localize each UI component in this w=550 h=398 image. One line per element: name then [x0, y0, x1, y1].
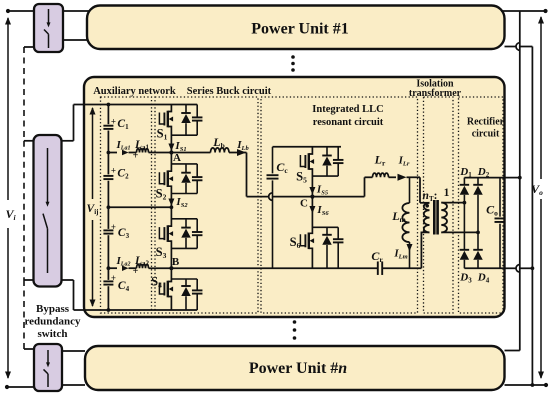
svg-text:switch: switch [38, 328, 68, 340]
current arrow IS6 [309, 204, 329, 217]
transformer T1 primary [421, 203, 429, 268]
wire [7, 386, 34, 388]
node B junction [169, 256, 180, 270]
diode and capacitor of S5 [312, 147, 343, 176]
diode and capacitor of S1 [171, 105, 202, 136]
isolation transformer label [409, 79, 462, 100]
wire [8, 10, 34, 12]
current arrow ILr [398, 155, 410, 181]
diode and capacitor of S4 [171, 279, 202, 310]
power unit #n label [249, 360, 347, 377]
current arrow ILb [236, 139, 249, 156]
transformer T1 secondary [441, 203, 447, 233]
svg-text:Power Unit #n: Power Unit #n [249, 360, 347, 377]
wire [24, 348, 34, 350]
wire [63, 39, 90, 41]
capacitor Cc [267, 147, 289, 268]
plus sign La1 [133, 151, 139, 162]
current arrow ILm [393, 242, 412, 268]
wire capacitor string [107, 103, 111, 125]
current arrow IS5 [309, 184, 328, 197]
svg-text:Bypass: Bypass [36, 303, 70, 315]
wire [107, 207, 109, 229]
vertical ellipsis (top) [291, 55, 295, 72]
svg-text:Integrated LLC: Integrated LLC [312, 104, 383, 115]
dashed series-input link (left) [23, 47, 25, 349]
svg-text:transformer: transformer [409, 88, 462, 99]
wire LLC top rail [273, 146, 342, 148]
power unit #1 box [87, 6, 505, 50]
svg-text:+: + [133, 266, 139, 277]
node A junction [169, 150, 181, 164]
diode D2 [473, 166, 489, 232]
wire with hop [505, 43, 533, 51]
wire [24, 46, 34, 48]
transistor S1 [157, 105, 173, 153]
capacitor C1 [103, 117, 129, 131]
rectifier circuit label [467, 117, 505, 140]
auxiliary network label [93, 86, 176, 97]
Vi measurement arrow [5, 17, 11, 379]
wire [24, 140, 34, 142]
diode D3 [459, 250, 472, 284]
wire [62, 280, 85, 310]
wire [171, 152, 246, 154]
inductor Lb [211, 135, 230, 153]
transformer ratio label [423, 187, 450, 203]
wire with hop [505, 265, 535, 273]
Vij label [87, 203, 99, 216]
transistor S6 [290, 197, 314, 269]
svg-text:+: + [111, 222, 116, 232]
wire [505, 383, 547, 387]
wire [501, 10, 546, 12]
integrated LLC label [312, 104, 383, 128]
capacitor Co [486, 178, 505, 269]
isolation transformer dotted box [424, 97, 454, 313]
svg-text:Auxiliary network: Auxiliary network [93, 86, 176, 97]
inductor Lm [391, 177, 409, 242]
svg-text:redundancy: redundancy [24, 316, 81, 328]
bypass redundancy switch box [34, 135, 62, 287]
auxiliary network dotted box [101, 97, 152, 313]
inductor Lr [373, 153, 389, 178]
transistor S3 [156, 207, 173, 268]
svg-text:Vo: Vo [531, 182, 543, 197]
svg-text:B: B [172, 256, 180, 268]
wire [107, 153, 109, 175]
input redundancy switch K1 (top) [34, 4, 63, 52]
wire node C [247, 193, 365, 201]
Vij measurement arrow [90, 107, 96, 307]
inductor La1 [134, 139, 150, 153]
node output minus terminal (bottom-right) [544, 383, 548, 387]
wire [505, 176, 522, 180]
wire [62, 384, 85, 386]
wire [407, 177, 430, 203]
wire [24, 279, 34, 281]
current arrow ILa1 [116, 139, 131, 155]
current arrow ILa2 [116, 255, 131, 271]
inductor La2 [134, 255, 150, 268]
svg-text:Series Buck circuit: Series Buck circuit [187, 86, 272, 97]
wire bottom input rail [84, 309, 197, 311]
svg-text:Vi: Vi [5, 207, 16, 222]
wire [246, 153, 248, 197]
bypass redundancy switch label [24, 303, 81, 340]
svg-text:1: 1 [444, 187, 450, 199]
capacitor C2 [103, 166, 129, 181]
vertical ellipsis (bottom) [293, 320, 297, 340]
wire [365, 177, 397, 196]
capacitor C4 [103, 273, 129, 293]
diode D1 [459, 166, 472, 203]
Vo measurement arrow [538, 16, 544, 379]
svg-text:+: + [133, 151, 139, 162]
diode and capacitor of S6 [312, 227, 343, 268]
diode and capacitor of S2 [171, 164, 202, 194]
power unit #1 label [251, 21, 348, 38]
wire output bus negative [531, 47, 533, 386]
node output plus terminal (top-right) [543, 9, 547, 13]
wire top input rail [84, 104, 197, 106]
wire secondary top [441, 201, 466, 205]
wire rectifier negative rail [464, 267, 505, 269]
svg-text:A: A [173, 152, 181, 164]
series buck circuit label [187, 86, 272, 97]
power unit internal box [84, 77, 505, 317]
plus sign La2 [133, 266, 139, 277]
wire [62, 105, 85, 141]
svg-text:resonant circuit: resonant circuit [313, 117, 384, 128]
svg-text:+: + [111, 117, 116, 127]
svg-text:Rectifier: Rectifier [467, 117, 505, 128]
svg-text:circuit: circuit [472, 129, 500, 140]
Vi label [5, 207, 16, 222]
wire [107, 268, 109, 280]
wire [107, 235, 111, 270]
current arrow IS2 [168, 196, 188, 209]
svg-text:+: + [111, 273, 116, 283]
diode D4 [473, 232, 489, 284]
wire [107, 131, 111, 155]
transformer T1 core [434, 200, 437, 235]
series buck dotted box [155, 97, 258, 313]
node C junction [300, 195, 314, 210]
transistor S4 [151, 268, 173, 310]
wire mid rail S2-S3 junction [107, 205, 174, 209]
current arrow IS1 [168, 140, 186, 153]
Vo label [531, 182, 543, 197]
input redundancy switch Kn (bottom) [34, 344, 62, 391]
svg-text:+: + [111, 166, 116, 176]
wire rectifier positive rail [464, 177, 505, 179]
transistor S2 [156, 153, 173, 208]
wire node B to LLC bottom rail [171, 267, 272, 269]
wire [382, 267, 422, 269]
power unit #n box [85, 346, 505, 390]
wire output bus positive [505, 11, 520, 351]
wire node A rail [108, 152, 171, 154]
node input minus terminal (bottom-left) [5, 385, 9, 389]
wire [107, 181, 109, 208]
svg-text:C: C [300, 198, 308, 210]
transistor S5 [296, 147, 314, 197]
capacitor Cr [371, 249, 383, 275]
capacitor C3 [103, 222, 129, 240]
LLC dotted box [261, 97, 418, 313]
diode and capacitor of S3 [171, 219, 202, 249]
wire node B rail [108, 267, 171, 269]
wire [107, 286, 111, 312]
node input plus terminal (top-left) [6, 9, 10, 13]
wire LLC bottom rail [273, 267, 379, 269]
wire [463, 203, 465, 250]
wire secondary bottom [441, 231, 480, 235]
svg-text:Power Unit #1: Power Unit #1 [251, 21, 348, 38]
rectifier dotted box [459, 97, 504, 313]
wire [63, 10, 90, 12]
wire [62, 350, 85, 352]
